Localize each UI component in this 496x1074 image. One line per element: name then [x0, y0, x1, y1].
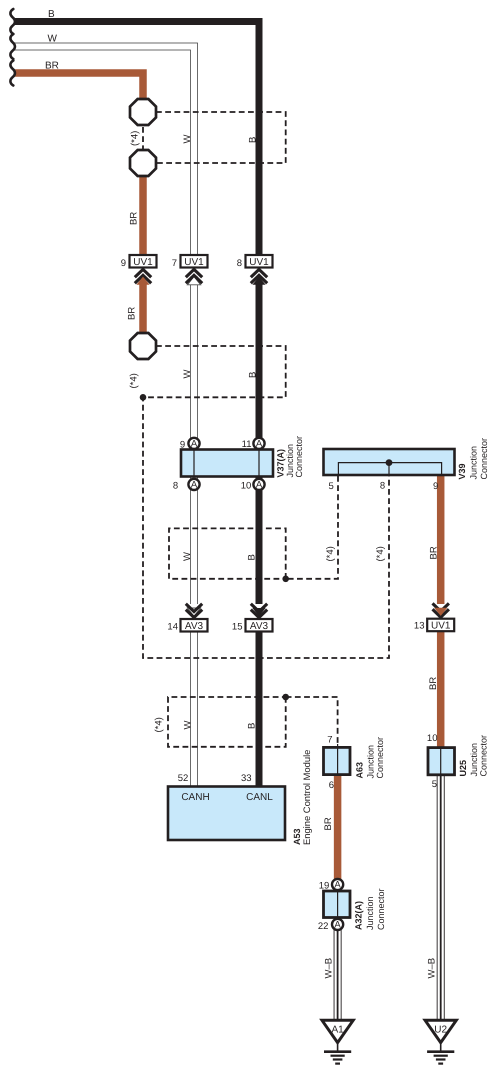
V39 inner junction dot pin8	[386, 459, 393, 466]
svg-text:Connector: Connector	[479, 438, 489, 480]
A63 inner divider	[337, 744, 339, 774]
svg-text:Engine Control Module: Engine Control Module	[301, 750, 312, 845]
junction dot rect3 bottom-right	[282, 576, 289, 583]
svg-text:W: W	[48, 34, 58, 45]
svg-text:U25: U25	[458, 760, 468, 777]
svg-text:W–B: W–B	[427, 958, 438, 979]
junction connector A63 body	[324, 747, 351, 774]
svg-text:W: W	[182, 370, 193, 379]
svg-text:10: 10	[241, 480, 252, 491]
pin circle A 22 A32	[332, 919, 343, 930]
wire W-B hollow right U25 to ground U2	[437, 772, 445, 1019]
svg-text:A32(A): A32(A)	[354, 901, 364, 930]
shield dashed pin5 drop + link	[286, 476, 338, 579]
svg-text:11: 11	[242, 439, 252, 450]
wire W-B hollow left A32 to ground A1	[334, 929, 342, 1019]
wire B segment below UV1-8	[256, 284, 263, 604]
junction connector U25 body	[428, 748, 455, 775]
chevron up under 9 UV1 (BR)	[135, 269, 151, 277]
svg-text:Connector: Connector	[479, 735, 489, 777]
shield dashed rect2 + left drop + bottom run + pin8 rise	[143, 346, 389, 658]
wire BR left top run	[14, 73, 143, 100]
junction connector V37(A) body	[181, 450, 273, 477]
svg-text:(*4): (*4)	[375, 546, 386, 561]
chevron up under 8 UV1 (B)	[251, 269, 267, 277]
svg-text:Connector: Connector	[294, 436, 304, 478]
shield octagon 2	[130, 150, 156, 176]
pin circle A 19 A32	[332, 879, 343, 890]
junction dot rect4 top-right	[282, 694, 289, 701]
pin circle A 9 V37	[188, 438, 199, 449]
shield dashed rect1 top	[156, 112, 286, 163]
svg-text:19: 19	[319, 880, 330, 891]
wire B thin through V37(A)	[258, 450, 260, 476]
wire-break squiggle BR	[10, 61, 15, 86]
connector box 9 UV1	[130, 255, 157, 268]
svg-text:8: 8	[237, 258, 242, 269]
svg-text:UV1: UV1	[184, 257, 204, 268]
wire B segment below AV3-15 to ECM	[256, 631, 263, 790]
wire W hollow top run	[14, 47, 194, 257]
svg-text:BR: BR	[429, 546, 440, 559]
svg-text:8: 8	[380, 481, 385, 492]
connector box 7 UV1	[181, 255, 208, 268]
svg-text:A63: A63	[354, 762, 364, 779]
svg-text:A1: A1	[331, 1025, 344, 1036]
ground triangle U2	[425, 1020, 456, 1042]
svg-text:10: 10	[427, 733, 438, 744]
svg-text:V39: V39	[457, 463, 467, 479]
svg-text:14: 14	[167, 622, 178, 633]
svg-text:AV3: AV3	[185, 621, 204, 632]
wire-break squiggle W	[10, 34, 15, 59]
wire BR right branch below UV1-13 to U25	[437, 631, 445, 752]
svg-text:9: 9	[121, 258, 126, 269]
connector box 14 AV3	[181, 619, 208, 632]
svg-text:22: 22	[318, 921, 329, 932]
svg-text:9: 9	[433, 481, 438, 492]
svg-text:7: 7	[327, 734, 332, 745]
svg-text:BR: BR	[127, 307, 138, 320]
svg-text:5: 5	[432, 779, 437, 790]
svg-text:BR: BR	[45, 61, 59, 72]
chevron down above 14 AV3 (W)	[187, 608, 200, 616]
svg-text:33: 33	[241, 773, 252, 784]
connector box 13 UV1	[427, 619, 454, 632]
svg-text:A: A	[256, 480, 263, 491]
svg-text:AV3: AV3	[250, 621, 269, 632]
wire-break squiggle B	[10, 9, 15, 34]
svg-text:13: 13	[414, 620, 425, 631]
wire BR right branch V39 pin9 to UV1-13	[437, 464, 445, 604]
wire BR A63 to A32(A)	[334, 772, 342, 886]
chevron down above 15 AV3 (B)	[251, 604, 267, 612]
defs-free schematic	[14, 22, 441, 1020]
chevron down above 13 UV1 (BR)	[433, 603, 449, 611]
svg-text:(*4): (*4)	[129, 373, 140, 388]
shield octagon 3	[130, 333, 156, 359]
svg-text:A: A	[334, 920, 341, 931]
ground triangle A1	[322, 1020, 353, 1042]
V39 inner bracket pins 5-8-9	[338, 463, 441, 475]
svg-text:W–B: W–B	[324, 958, 335, 979]
pin circle A 11 V37	[253, 438, 264, 449]
wire W hollow low run	[190, 631, 198, 790]
U25 inner divider	[440, 748, 442, 775]
svg-text:BR: BR	[323, 817, 334, 830]
svg-text:Junction: Junction	[365, 896, 375, 930]
svg-text:8: 8	[173, 480, 178, 491]
svg-text:52: 52	[178, 773, 189, 784]
svg-text:B: B	[247, 137, 258, 143]
svg-text:U2: U2	[434, 1025, 447, 1036]
svg-text:UV1: UV1	[133, 257, 153, 268]
connector box 8 UV1	[246, 255, 273, 268]
shield dashed rect3	[169, 528, 287, 578]
svg-text:B: B	[48, 9, 55, 20]
svg-text:B: B	[247, 554, 258, 560]
shield dashed rect4	[168, 697, 287, 747]
junction connector V39 body	[324, 449, 455, 475]
svg-text:A: A	[334, 880, 341, 891]
wire W thin through V37(A)	[193, 450, 195, 476]
svg-text:A: A	[191, 480, 198, 491]
svg-text:15: 15	[232, 622, 243, 633]
svg-text:B: B	[247, 372, 258, 378]
svg-text:W: W	[182, 135, 193, 144]
svg-text:BR: BR	[129, 212, 140, 225]
svg-text:Junction: Junction	[469, 743, 479, 777]
A32(A) inner divider	[337, 891, 339, 917]
svg-text:Connector: Connector	[376, 888, 386, 930]
svg-text:W: W	[182, 552, 193, 561]
svg-text:6: 6	[329, 780, 334, 791]
shield dashed rect4 extension to A63 pin7	[286, 697, 338, 745]
svg-text:B: B	[247, 723, 258, 729]
svg-text:7: 7	[172, 258, 177, 269]
pin circle A 8 V37	[188, 479, 199, 490]
svg-text:(*4): (*4)	[130, 131, 141, 146]
wire B main (black) horizontal+vertical	[14, 22, 259, 256]
junction connector A32(A) body	[324, 891, 351, 918]
svg-text:Junction: Junction	[469, 446, 479, 480]
svg-text:9: 9	[180, 440, 185, 451]
pin circle A 10 V37	[253, 479, 264, 490]
shield octagon 1	[130, 99, 156, 125]
svg-text:(*4): (*4)	[325, 546, 336, 561]
svg-text:UV1: UV1	[249, 257, 269, 268]
svg-text:CANH: CANH	[181, 792, 209, 803]
svg-text:BR: BR	[428, 677, 439, 690]
junction dot rect2 bottom-left	[140, 394, 147, 401]
wire W hollow mid run	[190, 277, 198, 605]
shield dashed between octagon1-2	[142, 127, 144, 149]
chevron up under 7 UV1 (W)	[187, 277, 200, 285]
svg-text:A: A	[256, 439, 263, 450]
wire BR below UV1-9 to octagon3	[139, 284, 147, 334]
ECU A53 body	[168, 787, 285, 841]
svg-text:W: W	[182, 721, 193, 730]
svg-text:UV1: UV1	[431, 621, 451, 632]
svg-text:(*4): (*4)	[154, 717, 165, 732]
svg-text:5: 5	[329, 481, 334, 492]
connector box 15 AV3	[246, 619, 273, 632]
svg-text:CANL: CANL	[246, 792, 273, 803]
wire BR octagon2 to UV1-9	[139, 175, 147, 256]
svg-text:A: A	[191, 439, 198, 450]
svg-text:Connector: Connector	[375, 737, 385, 779]
